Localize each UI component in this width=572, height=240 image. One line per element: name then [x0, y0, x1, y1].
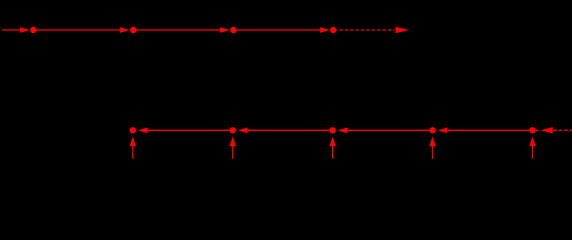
arrowhead vertical up 4 — [429, 136, 435, 146]
arrowhead top terminal right — [396, 27, 410, 34]
node bottom dot 5 — [529, 127, 535, 133]
arrowhead bottom inline left 2 — [238, 127, 248, 133]
wire top segment 2 — [133, 29, 220, 31]
node top dot 3 — [230, 27, 236, 33]
wire vertical arrow stem 3 — [332, 146, 334, 159]
arrowhead top inline 1 — [20, 27, 30, 33]
wire top segment 1 — [33, 29, 120, 31]
wire bottom segment 3 — [347, 129, 432, 131]
node top dot 2 — [130, 27, 136, 33]
wire vertical arrow stem 2 — [232, 146, 234, 159]
arrowhead top inline 3 — [220, 27, 230, 33]
wire vertical arrow stem 5 — [532, 146, 534, 159]
arrowhead vertical up 3 — [329, 136, 335, 146]
arrowhead vertical up 1 — [130, 136, 136, 146]
wire top segment 3 — [233, 29, 320, 31]
arrowhead bottom inline left 1 — [138, 127, 148, 133]
wire bottom segment 1 — [147, 129, 232, 131]
arrowhead vertical up 2 — [230, 136, 236, 146]
wire vertical arrow stem 1 — [132, 146, 134, 159]
wire bottom stub after last dot — [536, 129, 539, 131]
wire top segment 4 — [333, 29, 336, 31]
arrowhead bottom terminal left — [541, 127, 553, 134]
node bottom dot 4 — [429, 127, 435, 133]
node top dot 4 — [330, 27, 336, 33]
node bottom dot 1 — [130, 127, 136, 133]
wire vertical arrow stem 4 — [432, 146, 434, 159]
wire top segment 0 — [2, 29, 20, 31]
wire bottom segment 2 — [247, 129, 332, 131]
arrowhead vertical up 5 — [529, 136, 535, 146]
wire top chain dashed line — [339, 29, 394, 31]
arrowhead bottom inline left 4 — [438, 127, 448, 133]
wire bottom segment 4 — [447, 129, 532, 131]
wire bottom chain dashed line — [554, 129, 572, 131]
node bottom dot 2 — [230, 127, 236, 133]
node bottom dot 3 — [329, 127, 335, 133]
node top dot 1 — [30, 27, 36, 33]
arrowhead top inline 4 — [320, 27, 330, 33]
arrowhead top inline 2 — [120, 27, 130, 33]
arrowhead bottom inline left 3 — [338, 127, 348, 133]
